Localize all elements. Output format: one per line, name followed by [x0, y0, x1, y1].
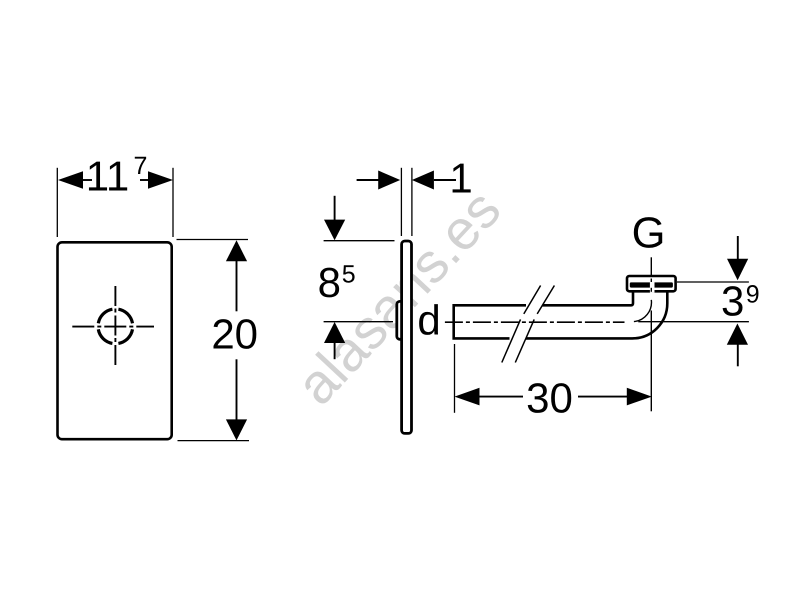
dim 8.5 arrow up — [324, 322, 345, 343]
dim 11.7 extension line right — [172, 168, 174, 237]
svg-text:9: 9 — [746, 281, 760, 309]
dim 20 arrow up — [226, 240, 247, 261]
dim 11.7 line right tail — [140, 179, 150, 181]
bend centerline dash-dot arc — [634, 300, 652, 322]
pipe break slash 2 upper — [537, 286, 554, 314]
svg-text:1: 1 — [449, 154, 472, 201]
dim 3.9 arrow up — [727, 324, 748, 345]
dim 8.5 reference line top — [324, 240, 395, 242]
G centerline dot above band — [650, 279, 652, 283]
svg-text:3: 3 — [721, 278, 744, 325]
dim 20 arrow down — [226, 419, 247, 440]
dim 8.5 line above — [334, 196, 336, 221]
side view collar bump — [397, 301, 406, 339]
dim 30 line left segment — [479, 396, 524, 398]
centerline halo over nut — [650, 281, 655, 293]
dim 1 extension line right — [411, 168, 413, 236]
svg-text:11: 11 — [86, 152, 130, 199]
dim 11.7 line left tail — [82, 179, 92, 181]
dim 30 line right segment — [578, 396, 628, 398]
pipe top edge segment 2 with inner corner up to nut — [543, 291, 634, 305]
G centerline short segment below band — [650, 288, 652, 292]
svg-text:7: 7 — [134, 152, 148, 180]
pipe bottom edge segment 2 with outer bend arc and neck right — [526, 291, 667, 338]
dim 11.7 arrow left — [58, 171, 83, 189]
svg-text:20: 20 — [211, 310, 258, 357]
svg-text:8: 8 — [318, 259, 341, 306]
svg-text:30: 30 — [526, 375, 573, 422]
G centerline upper dash — [650, 257, 652, 275]
dim 1 arrow pointing left — [412, 171, 434, 190]
hole circle arc 2 — [98, 329, 112, 343]
dim 11.7 extension line left — [56, 168, 58, 237]
dim 1 extension line left — [400, 168, 402, 236]
dim 11.7 arrow right — [148, 171, 173, 189]
dim 20 line lower segment — [236, 359, 238, 420]
hole circle arc 3 — [98, 309, 112, 323]
pipe centerline horizontal dash-dot — [445, 321, 625, 323]
G centerline lower dash-dot — [650, 311, 652, 412]
dim 8.5 arrow down — [324, 220, 345, 241]
dim 1 arrow pointing right — [378, 171, 400, 190]
dim 3.9 reference line bottom — [638, 321, 749, 323]
dim 3.9 line above — [737, 236, 739, 260]
pipe break slash 1 lower — [502, 319, 521, 362]
plate side view outline — [402, 241, 412, 433]
hole circle arc 4 — [118, 309, 132, 323]
dim 8.5 line below — [334, 342, 336, 359]
dim 3.9 arrow down — [727, 259, 748, 281]
dim 3.9 line below — [737, 344, 739, 367]
pipe break slash 2 lower — [515, 319, 534, 362]
union nut outline — [627, 276, 676, 291]
pipe break slash 1 upper — [524, 286, 541, 314]
dim 30 arrow left — [455, 388, 480, 406]
dim 3.9 reference line top — [677, 281, 749, 283]
dim 20 reference line top — [177, 239, 249, 241]
hole circle arc 1 — [118, 329, 132, 343]
dim 1 left tail line — [357, 179, 379, 181]
svg-text:d: d — [417, 297, 440, 344]
plate front view outline — [58, 242, 172, 439]
hole centerline horizontal — [72, 326, 154, 328]
dim 8.5 reference line bottom — [324, 321, 393, 323]
union nut thread band — [630, 282, 673, 287]
svg-text:5: 5 — [342, 260, 356, 288]
dim 30 arrow right — [627, 388, 652, 406]
svg-text:G: G — [632, 210, 666, 258]
dim 20 line upper segment — [236, 260, 238, 311]
dim 1 right tail line — [434, 179, 456, 181]
pipe top edge and left end cap and bottom edge segment 1 — [454, 305, 526, 338]
dim 20 reference line bottom — [178, 440, 250, 442]
dim 30 extension line left — [454, 344, 456, 413]
hole centerline vertical — [114, 286, 116, 367]
